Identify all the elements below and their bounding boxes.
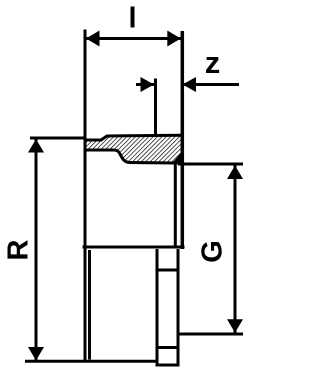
extension line z (short vertical at x=155.5) [154,79,157,135]
svg-text:G: G [197,240,229,263]
extension line R top [30,137,86,140]
body right inner line (upper half, thread G) [174,164,177,248]
spigot rung upper [157,269,178,272]
hatched cross-section fill [84,137,183,165]
section bore edge with step [85,150,175,163]
svg-text:z: z [205,45,221,80]
mid horizontal edge [83,246,185,249]
spigot bottom edge [156,364,180,367]
arrowhead l left [86,31,100,47]
thread chamfer (filled corner) [171,151,183,165]
dimension line z left part [136,83,154,86]
svg-text:l: l [128,3,136,35]
extension line G top [178,163,243,166]
extension line G bottom [178,333,243,336]
arrowhead z right (points left) [183,77,197,92]
body right outer edge (also extension line for l and z) [181,31,185,249]
arrowhead l right [167,31,181,47]
arrowhead G top [227,166,243,180]
spigot rung lower [157,346,178,349]
section top edge (tapered thread outline) [84,135,182,140]
technical drawing: threaded fitting half-section with dimensions l, z, R, G [0,0,244,370]
lower spigot left line [156,249,159,365]
lower spigot right line [177,249,180,365]
arrowhead R bottom [28,347,44,361]
dimension line R [35,138,38,361]
dimension line l [86,37,181,40]
extension line R bottom (also body bottom edge) [25,360,157,363]
arrowhead R top [28,139,44,153]
arrowhead G bottom [227,319,243,333]
body left inner line (lower half) [88,250,91,360]
dimension line G [234,165,237,333]
svg-text:R: R [3,239,35,260]
dimension line z right part [183,83,240,86]
arrowhead z left (points right) [141,77,155,92]
body left outer edge (also extension line for l and R) [84,30,87,362]
